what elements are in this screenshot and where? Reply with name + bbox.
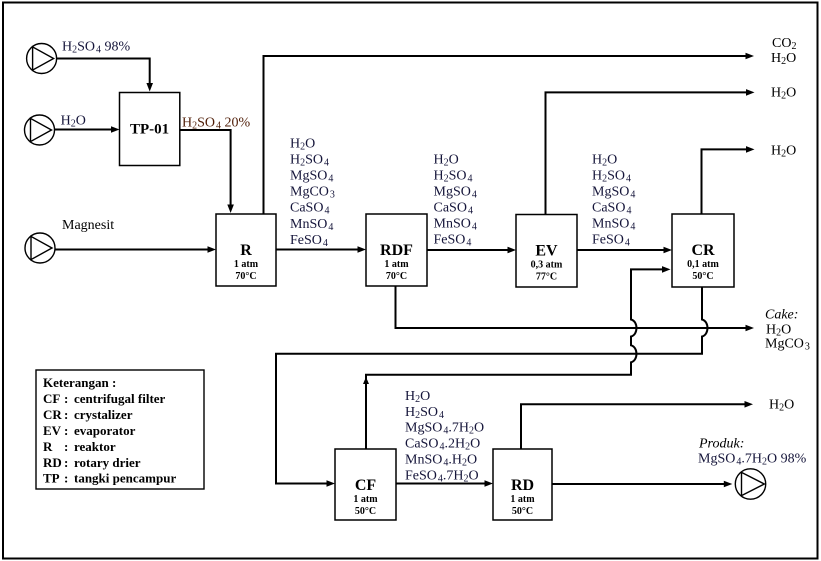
svg-text:Keterangan :: Keterangan : bbox=[43, 375, 116, 390]
svg-text:TP: TP bbox=[43, 471, 60, 486]
svg-text:centrifugal filter: centrifugal filter bbox=[74, 391, 166, 406]
arrow into R top bbox=[227, 205, 234, 214]
svg-text:RD: RD bbox=[43, 455, 62, 470]
legend box Keterangan bbox=[36, 370, 204, 489]
arrow into CR left bbox=[664, 247, 673, 254]
wire H2O vapor from EV top to right edge bbox=[546, 92, 747, 214]
arrow CO2/H2O outlet bbox=[746, 53, 755, 60]
svg-text:77°C: 77°C bbox=[536, 272, 557, 283]
svg-text::: : bbox=[64, 407, 68, 422]
svg-text:R: R bbox=[43, 439, 53, 454]
arrow into RDF left bbox=[358, 246, 367, 253]
svg-text:CF: CF bbox=[43, 391, 60, 406]
wire product from RD right to product pump bbox=[552, 483, 724, 485]
svg-text:1 atm: 1 atm bbox=[234, 259, 259, 270]
arrow into RD left bbox=[485, 480, 494, 487]
svg-text:1 atm: 1 atm bbox=[510, 494, 535, 505]
arrow recycle into CR left bbox=[662, 266, 671, 273]
wire H2SO4 20% from TP-01 right down to R top bbox=[180, 130, 231, 205]
centrifugal filter CF bbox=[335, 449, 396, 520]
svg-text::: : bbox=[64, 391, 68, 406]
wire EV to CR bbox=[577, 249, 664, 251]
svg-text:reaktor: reaktor bbox=[74, 439, 116, 454]
arrow into product pump bbox=[724, 481, 733, 488]
arrow CR vapor outlet bbox=[746, 146, 755, 153]
svg-text:MnSO4​: MnSO4​ bbox=[592, 217, 635, 233]
svg-text:MgCO3​: MgCO3​ bbox=[290, 185, 335, 201]
rotary drum filter RDF bbox=[366, 214, 427, 286]
svg-text:EV: EV bbox=[535, 243, 558, 260]
svg-text:R: R bbox=[240, 242, 252, 259]
wire CO2/H2O vent from R top to right edge bbox=[264, 56, 746, 214]
wire CR bottom to CF left (with hop over cake line) bbox=[276, 287, 707, 484]
wire H2O from P2 to TP-01 left bbox=[54, 129, 111, 131]
svg-text:Cake:: Cake: bbox=[765, 308, 798, 323]
svg-text:CR: CR bbox=[43, 407, 62, 422]
svg-text:CF: CF bbox=[355, 477, 377, 494]
reactor R bbox=[216, 214, 276, 286]
svg-text::: : bbox=[64, 423, 68, 438]
svg-text:RDF: RDF bbox=[380, 242, 413, 259]
svg-text:MgSO4​.7H2​O 98%: MgSO4​.7H2​O 98% bbox=[698, 452, 807, 468]
svg-text:tangki pencampur: tangki pencampur bbox=[74, 471, 176, 486]
wire H2O vapor from RD top to right edge bbox=[521, 404, 745, 449]
arrow into CF left bbox=[327, 480, 336, 487]
small up arrowhead on CF top riser bbox=[363, 377, 369, 384]
pump P3 (Magnesit feed) bbox=[25, 233, 55, 263]
wire R to RDF bbox=[276, 249, 358, 251]
svg-text:MnSO4​: MnSO4​ bbox=[290, 217, 333, 233]
svg-text:evaporator: evaporator bbox=[74, 423, 136, 438]
arrow into R left bbox=[208, 246, 217, 253]
svg-text:50°C: 50°C bbox=[355, 506, 376, 517]
svg-text:MgSO4​: MgSO4​ bbox=[434, 184, 477, 200]
svg-text::: : bbox=[64, 439, 68, 454]
svg-text:EV: EV bbox=[43, 423, 62, 438]
svg-text:70°C: 70°C bbox=[235, 271, 256, 282]
svg-text:MgCO3​: MgCO3​ bbox=[765, 337, 810, 353]
svg-text:MgSO4​: MgSO4​ bbox=[592, 184, 635, 200]
svg-text:1 atm: 1 atm bbox=[353, 494, 378, 505]
arrow into TP-01 left bbox=[111, 126, 120, 133]
rotary drier RD bbox=[493, 449, 552, 520]
evaporator EV bbox=[516, 215, 577, 288]
svg-text::: : bbox=[64, 455, 68, 470]
svg-text:MgSO4​: MgSO4​ bbox=[290, 169, 333, 185]
svg-text:crystalizer: crystalizer bbox=[74, 407, 133, 422]
crystalizer CR bbox=[672, 214, 734, 287]
svg-text:0,3 atm: 0,3 atm bbox=[531, 260, 563, 271]
pump P2 (H2O feed) bbox=[25, 115, 55, 145]
svg-text:70°C: 70°C bbox=[386, 271, 407, 282]
wire recycle from CF top to CR left (hops over two lines) bbox=[366, 269, 662, 449]
arrow EV vapor outlet bbox=[746, 89, 755, 96]
wire RDF to EV bbox=[427, 249, 508, 251]
svg-text:MnSO4​: MnSO4​ bbox=[434, 217, 477, 233]
wire cake from RDF bottom to right edge bbox=[396, 286, 746, 328]
svg-text:MnSO4​.H2​O: MnSO4​.H2​O bbox=[405, 453, 477, 469]
arrow RD vapor outlet bbox=[745, 401, 754, 408]
arrow cake outlet bbox=[746, 325, 755, 332]
svg-text:1 atm: 1 atm bbox=[384, 259, 409, 270]
pump P4 (product pump) bbox=[735, 469, 765, 499]
svg-text:RD: RD bbox=[511, 477, 534, 494]
svg-text::: : bbox=[64, 471, 68, 486]
svg-text:TP-01: TP-01 bbox=[130, 121, 169, 137]
svg-text:CR: CR bbox=[691, 242, 715, 259]
wire Magnesit from P3 to R left bbox=[55, 249, 208, 251]
wire H2SO4 98% from P1 to TP-01 top bbox=[57, 59, 150, 84]
svg-text:50°C: 50°C bbox=[692, 271, 713, 282]
pump P1 (H2SO4 98% feed) bbox=[27, 44, 57, 74]
wire CF to RD bbox=[396, 483, 485, 485]
svg-text:0,1 atm: 0,1 atm bbox=[687, 259, 719, 270]
svg-text:50°C: 50°C bbox=[512, 506, 533, 517]
svg-text:Produk:: Produk: bbox=[698, 437, 744, 452]
arrow into TP-01 top bbox=[146, 83, 153, 92]
svg-text:Magnesit: Magnesit bbox=[62, 218, 114, 233]
svg-text:rotary drier: rotary drier bbox=[74, 455, 141, 470]
arrow into EV left bbox=[508, 247, 517, 254]
mixer tank TP-01 bbox=[120, 93, 180, 166]
wire H2O vapor from CR top to right edge bbox=[702, 149, 747, 214]
